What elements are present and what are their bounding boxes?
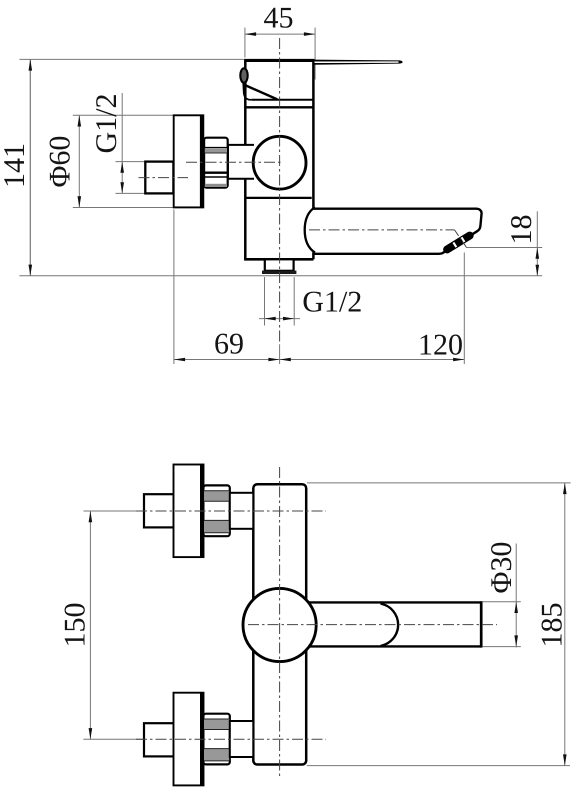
dimension phi30 line: [515, 544, 517, 648]
body outline: right edge: [312, 60, 315, 259]
extension line: 45 right: [314, 28, 316, 80]
dimension phi30 arrows: [514, 602, 518, 647]
dimension 45 arrows: [245, 32, 315, 36]
dimension 18 text: [511, 216, 531, 242]
centerline: top inlet axis: [136, 510, 326, 512]
extension line: centre shared 69/120: [279, 345, 281, 364]
wall union pipe: [145, 162, 173, 194]
dimension G1/2 left line: [121, 93, 123, 193]
dimension phi60 text: [50, 137, 70, 187]
dimension 150 text: [65, 604, 85, 645]
extension line: 141 top (body top level): [19, 58, 244, 60]
dimension 150 arrows: [89, 511, 93, 739]
bottom union nut: [203, 714, 229, 765]
extension lines: phi60 (flange diameter): [73, 114, 174, 116]
wall flange: [174, 115, 204, 207]
extension lines: 185: [307, 482, 571, 484]
bottom wall flange: [174, 693, 204, 786]
top inlet adapter: [230, 493, 254, 529]
extension lines: 150: [83, 510, 150, 512]
spout end cap: [480, 601, 483, 647]
centerline: cartridge axis: [186, 161, 281, 163]
spout outline: [313, 209, 481, 254]
extension lines: G1/2 outlet: [264, 277, 266, 326]
cartridge circle: [253, 136, 306, 189]
body cap joint line: [246, 106, 315, 108]
body outline: top edge: [244, 59, 315, 62]
handle boss circle: [243, 588, 316, 661]
union nut chamfer line: [205, 147, 228, 149]
lever capsule end arc: [381, 604, 399, 646]
dimension G1/2 left arrows: [120, 162, 124, 194]
centerline: bottom inlet axis: [136, 738, 326, 740]
handle lever bar: [313, 60, 403, 65]
dimension 185 text: [542, 604, 562, 645]
dimension 69 arrows: [174, 358, 280, 362]
bottom nut knurl bands: [204, 719, 229, 730]
dimension G1/2 left text: [96, 95, 116, 152]
dimension 120 arrows: [280, 358, 465, 362]
centerline: spout axis: [309, 229, 455, 231]
body outline: left edge: [244, 60, 247, 259]
top wall flange: [174, 465, 204, 558]
extension lines: phi30: [483, 601, 521, 603]
bottom inlet adapter: [230, 721, 254, 757]
body mid joint line: [245, 197, 311, 199]
top union nut: [203, 485, 229, 536]
dimension phi30 text: [491, 543, 511, 593]
extension line: base plane (141 bottom / 18 bottom): [19, 275, 542, 277]
outlet retaining lip: [262, 271, 296, 274]
handle pivot bump: [240, 68, 247, 82]
dimension 185 line: [564, 483, 566, 766]
union nut lower knurl band: [205, 184, 227, 187]
dimension 141 text: [4, 145, 24, 186]
bottom wall pipe: [144, 723, 174, 756]
centerline: wall union axis: [139, 177, 189, 179]
union nut lower joint lines: [205, 172, 228, 174]
body outline: bottom edge: [244, 258, 313, 261]
top nut knurl bands: [204, 491, 229, 502]
dimension 69 text: [215, 334, 242, 354]
dimension phi60 arrows: [78, 115, 82, 207]
union nut: [204, 138, 228, 188]
centerline: vertical body axis: [279, 38, 281, 345]
handle tilted underside: [245, 85, 277, 99]
dimension phi60 line: [78, 115, 80, 207]
dimension 18 line: [536, 211, 538, 276]
wall flange thick edge: [200, 115, 203, 207]
dimension 18 arrows: [536, 248, 540, 276]
dimension 185 arrows: [563, 483, 567, 766]
extension line: 120 right (aerator): [463, 253, 465, 365]
dimension 45 line: [245, 33, 315, 35]
top wall pipe: [144, 494, 174, 527]
dimension 45 text: [264, 8, 292, 28]
dimension G1/2 bottom line: [259, 318, 300, 320]
handle skirt bottom edge: [252, 99, 314, 101]
extension line: 45 left: [244, 28, 246, 58]
spout tube bottom view: [303, 602, 481, 646]
extension line: 18 top (spout mouth): [466, 247, 542, 249]
inlet adapter tube: [228, 145, 254, 179]
dimension 141 line: [29, 59, 31, 275]
handle skirt left silhouette: [243, 83, 251, 100]
extension lines: G1/2 wall union: [116, 161, 145, 163]
top wall flange thick edge: [200, 465, 203, 558]
dimension G1/2 bottom arrows: [265, 317, 295, 321]
aerator grille: [447, 236, 470, 250]
union nut knurl band: [205, 148, 227, 153]
dimension G1/2 bottom text: [304, 292, 361, 312]
centerline: aerator axis slant: [455, 230, 467, 247]
dimension 69/120 line: [174, 359, 464, 361]
extension line: 69 left (flange face): [173, 210, 175, 365]
dimension 150 line: [89, 511, 91, 739]
outlet nipple: [265, 259, 294, 271]
centerline: spout axis bottom view: [248, 624, 497, 626]
dimension 141 arrows: [29, 59, 33, 275]
centerline: vertical body axis bottom view: [279, 467, 281, 779]
spout body fillet arc: [305, 207, 315, 252]
body outline bottom view: [253, 484, 306, 764]
dimension 120 text: [421, 335, 462, 355]
bottom wall flange thick edge: [200, 693, 203, 786]
